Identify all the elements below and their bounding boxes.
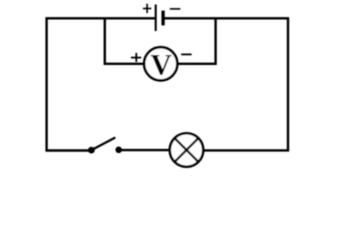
svg-text:V: V	[151, 50, 172, 82]
